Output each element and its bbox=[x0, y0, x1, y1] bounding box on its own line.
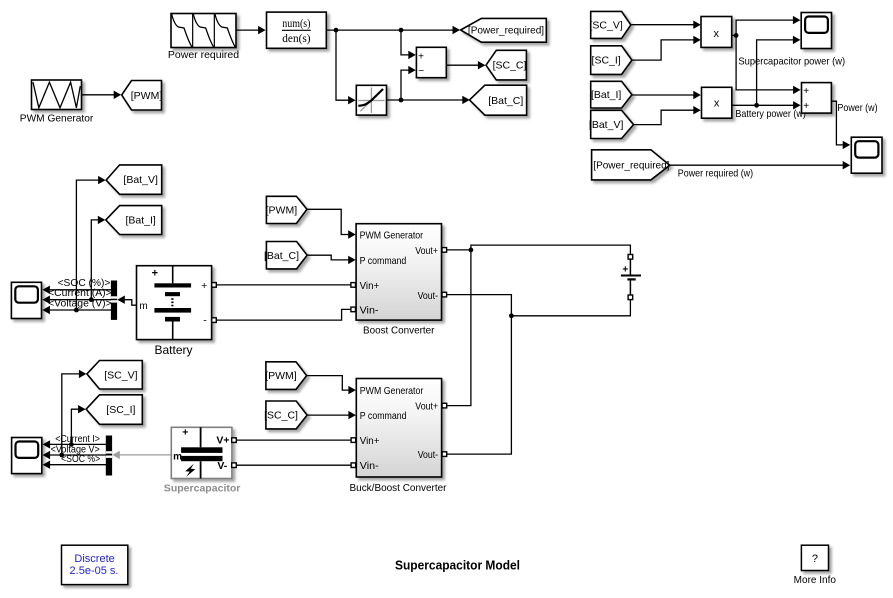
label Power required bbox=[168, 49, 239, 61]
svg-text:More Info: More Info bbox=[794, 575, 837, 586]
boost converter port Vin+ bbox=[351, 283, 356, 288]
buck converter port Vin+ bbox=[351, 438, 356, 443]
svg-text:[SC_C]: [SC_C] bbox=[264, 410, 298, 422]
transfer function block num(s)/den(s) bbox=[267, 12, 327, 48]
label signal Voltage V bbox=[48, 298, 112, 309]
supercap port V- bbox=[232, 463, 237, 468]
wire from Bat_C to Boost P command input bbox=[307, 255, 356, 264]
svg-text:[Power_required]: [Power_required] bbox=[468, 26, 544, 37]
wire PWM Generator to goto tag PWM bbox=[82, 91, 122, 99]
svg-text:2.5e-05 s.: 2.5e-05 s. bbox=[70, 565, 119, 577]
buck converter port Vin- bbox=[351, 463, 356, 468]
product block Product2 x bbox=[702, 87, 732, 118]
junction node A bbox=[334, 28, 339, 33]
label Supercapacitor power (w) bbox=[738, 56, 845, 68]
label Power required (w) bbox=[678, 168, 753, 180]
svg-text:[Bat_V]: [Bat_V] bbox=[589, 119, 624, 131]
junction node F bbox=[74, 308, 79, 313]
boost converter port Vout+ bbox=[442, 248, 447, 253]
from tag SC_I bbox=[591, 46, 632, 75]
svg-text:m: m bbox=[173, 452, 182, 463]
svg-text:Battery: Battery bbox=[154, 343, 192, 357]
svg-text:[Power_required]: [Power_required] bbox=[593, 161, 669, 172]
wire supercap m to bus selector (gray) bbox=[112, 451, 171, 459]
DC source port top bbox=[628, 255, 633, 260]
DC voltage source V1 bbox=[621, 259, 641, 295]
wire node C up to Sum minus input bbox=[401, 66, 416, 100]
wire SC_I to Product1 in2 bbox=[632, 36, 701, 60]
from tag Bat_C bbox=[264, 242, 307, 269]
junction node K bbox=[59, 453, 64, 458]
wire junction Current up to goto SC_I bbox=[71, 405, 85, 444]
svg-text:P command: P command bbox=[360, 410, 407, 422]
svg-text:Vin+: Vin+ bbox=[360, 280, 380, 292]
wire supercap bus out3 SOC to scope bbox=[43, 461, 107, 469]
goto tag Bat_V bbox=[106, 165, 162, 194]
svg-text:+: + bbox=[152, 267, 158, 279]
wire junction Current up to goto Bat_I bbox=[91, 216, 105, 300]
wire supercap bus out1 Current to scope bbox=[43, 440, 107, 448]
goto tag Bat_I bbox=[106, 206, 162, 235]
goto tag SC_I bbox=[86, 395, 142, 425]
svg-text:Vin-: Vin- bbox=[360, 460, 379, 472]
svg-text:+: + bbox=[622, 265, 628, 276]
svg-text:<Voltage (V)>: <Voltage (V)> bbox=[48, 298, 112, 309]
svg-text:[Bat_C]: [Bat_C] bbox=[488, 95, 523, 107]
bus selector battery (black bar) bbox=[111, 281, 117, 320]
wire battery plus to Boost Vin+ bbox=[216, 284, 351, 286]
svg-text:PWM Generator: PWM Generator bbox=[360, 385, 424, 397]
svg-text:-: - bbox=[203, 315, 207, 327]
wire Sum2 output to Scope2 in1 bbox=[831, 101, 850, 149]
product block Product1 x bbox=[701, 17, 732, 48]
label More Info bbox=[794, 575, 837, 586]
goto tag SC_V bbox=[87, 361, 142, 390]
from tag Bat_I bbox=[591, 81, 632, 108]
wire battery minus to Boost Vin- bbox=[216, 309, 351, 320]
from tag SC_V bbox=[590, 11, 631, 38]
source block PWM Generator (triangle wave) bbox=[32, 80, 82, 110]
svg-text:+: + bbox=[418, 51, 424, 62]
wire Saturation output to Goto Bat_C bbox=[387, 96, 470, 104]
wire Power required to Transfer Fcn bbox=[236, 26, 266, 34]
svg-text:Supercapacitor: Supercapacitor bbox=[164, 483, 241, 494]
svg-text:x: x bbox=[714, 98, 720, 110]
label signal SOC percent supercap bbox=[61, 454, 100, 465]
svg-text:[Bat_C]: [Bat_C] bbox=[264, 250, 299, 262]
svg-text:+: + bbox=[803, 86, 809, 97]
subsystem block Buck/Boost Converter bbox=[356, 379, 441, 478]
junction node C bbox=[399, 98, 404, 103]
wire Product1 output to Scope1 in1 and Sum2 in1 bbox=[732, 16, 801, 94]
wire bus selector out3 Voltage to scope bbox=[42, 306, 111, 314]
svg-text:V-: V- bbox=[217, 460, 227, 472]
junction node H bbox=[469, 248, 474, 253]
svg-text:[PWM]: [PWM] bbox=[266, 204, 298, 216]
svg-text:Vout+: Vout+ bbox=[415, 245, 438, 257]
subsystem block Boost Converter bbox=[356, 224, 441, 320]
junction node J bbox=[69, 442, 74, 447]
label Battery power (w) bbox=[735, 108, 806, 120]
supercapacitor block bbox=[171, 426, 232, 478]
svg-text:Buck/Boost Converter: Buck/Boost Converter bbox=[350, 483, 448, 494]
wire bus selector out1 SOC to scope bbox=[42, 286, 111, 294]
svg-text:<SOC %>: <SOC %> bbox=[61, 454, 100, 465]
wire junction Voltage up to goto SC_V bbox=[62, 370, 87, 455]
wire battery m to bus selector bbox=[117, 296, 136, 306]
from tag PWM (boost) bbox=[266, 196, 307, 223]
saturation dynamic block bbox=[356, 85, 386, 115]
goto tag Power_required bbox=[461, 18, 547, 42]
battery output port plus bbox=[212, 283, 217, 288]
scope block Supercap Scope bbox=[12, 438, 42, 474]
svg-text:Supercapacitor power (w): Supercapacitor power (w) bbox=[738, 56, 845, 68]
wire from PWM to Buck PWM Generator input bbox=[307, 376, 356, 395]
from tag Power_required bbox=[592, 150, 670, 180]
goto tag SC_C bbox=[486, 50, 527, 80]
svg-text:PWM Generator: PWM Generator bbox=[20, 113, 94, 125]
svg-text:+: + bbox=[803, 101, 809, 112]
scope block Scope1 bbox=[801, 13, 831, 49]
svg-text:Vout-: Vout- bbox=[418, 290, 439, 302]
label signal Current A bbox=[48, 288, 112, 299]
label Battery bbox=[154, 343, 192, 357]
from tag SC_C bbox=[264, 401, 307, 429]
sum block U1 plus-minus bbox=[416, 47, 446, 77]
svg-text:x: x bbox=[714, 28, 720, 40]
svg-text:[SC_C]: [SC_C] bbox=[493, 60, 527, 72]
label Buck/Boost Converter bbox=[350, 483, 448, 494]
scope block Scope2 bbox=[851, 137, 882, 173]
svg-text:Vout+: Vout+ bbox=[415, 401, 438, 413]
more info block question mark bbox=[801, 545, 828, 570]
svg-text:Power required: Power required bbox=[168, 49, 239, 61]
battery output port minus bbox=[212, 318, 217, 323]
junction node D bbox=[734, 33, 739, 38]
svg-text:+: + bbox=[182, 426, 188, 438]
svg-text:[SC_I]: [SC_I] bbox=[592, 55, 621, 67]
svg-text:Supercapacitor Model: Supercapacitor Model bbox=[395, 558, 520, 573]
wire node A down to Saturation input bbox=[336, 30, 356, 104]
svg-text:[PWM]: [PWM] bbox=[131, 90, 163, 102]
wire SC_V to Product1 in1 bbox=[631, 21, 701, 29]
label signal SOC percent bbox=[58, 278, 111, 289]
buck converter port Vout+ bbox=[442, 403, 447, 408]
wire junction Voltage up to goto Bat_V bbox=[76, 176, 105, 310]
junction node B bbox=[399, 28, 404, 33]
svg-text:Discrete: Discrete bbox=[74, 553, 114, 565]
svg-text:den(s): den(s) bbox=[282, 33, 310, 45]
svg-text:Boost Converter: Boost Converter bbox=[363, 325, 435, 336]
svg-text:[SC_V]: [SC_V] bbox=[104, 369, 137, 381]
wire from PWM to Boost PWM Generator input bbox=[307, 209, 356, 238]
svg-text:[Bat_I]: [Bat_I] bbox=[125, 215, 155, 227]
svg-text:Power required (w): Power required (w) bbox=[678, 168, 753, 180]
wire supercap bus out2 Voltage to scope bbox=[43, 451, 107, 459]
wire Product2 output to Sum2 in2 and Scope1 in2 bbox=[732, 36, 801, 110]
goto tag Bat_C bbox=[470, 85, 527, 115]
DC source port bottom bbox=[628, 295, 633, 300]
svg-text:PWM Generator: PWM Generator bbox=[360, 229, 424, 241]
wire Bat_V to Product2 in2 bbox=[634, 106, 701, 125]
wire from tag Power_required to Scope2 in2 bbox=[670, 161, 851, 169]
svg-text:+: + bbox=[201, 280, 207, 292]
svg-text:Vin-: Vin- bbox=[360, 304, 379, 316]
svg-text:m: m bbox=[139, 301, 147, 312]
svg-text:V+: V+ bbox=[216, 435, 229, 447]
wire Transfer Fcn output to Goto Power_required bbox=[326, 26, 460, 34]
svg-text:[Bat_V]: [Bat_V] bbox=[123, 174, 158, 186]
battery block bbox=[137, 266, 212, 340]
label Power (w) bbox=[837, 102, 877, 114]
wire Sum output to Goto SC_C bbox=[446, 61, 485, 69]
svg-text:−: − bbox=[418, 66, 424, 77]
svg-text:<Current (A)>: <Current (A)> bbox=[48, 288, 112, 299]
svg-text:?: ? bbox=[812, 553, 818, 565]
junction node E bbox=[754, 103, 759, 108]
wire supercap V+ to Buck Vin+ bbox=[236, 439, 351, 441]
label Boost Converter bbox=[363, 325, 435, 336]
label Supercapacitor bbox=[164, 483, 241, 494]
wire net Vout- (boost to DC source and buck) bbox=[447, 295, 631, 455]
svg-text:[SC_I]: [SC_I] bbox=[106, 404, 135, 416]
boost converter port Vin- bbox=[351, 307, 356, 312]
wire bus selector out2 Current to scope bbox=[42, 296, 111, 304]
buck converter port Vout- bbox=[442, 452, 447, 457]
svg-text:Vout-: Vout- bbox=[418, 449, 439, 461]
boost converter port Vout- bbox=[442, 292, 447, 297]
wire from SC_C to Buck P command input bbox=[307, 411, 356, 419]
bus selector supercap (black bar) bbox=[106, 436, 112, 475]
supercap port V+ bbox=[232, 438, 237, 443]
from tag Bat_V bbox=[589, 110, 634, 138]
svg-text:P command: P command bbox=[360, 255, 407, 267]
wire supercap V- to Buck Vin- bbox=[236, 464, 351, 466]
goto tag PWM bbox=[122, 81, 163, 111]
wire node B down to Sum plus input bbox=[401, 30, 416, 59]
from tag PWM (buck) bbox=[265, 362, 306, 390]
source block Power required (repeating sequence) bbox=[171, 14, 236, 48]
label PWM Generator bbox=[20, 113, 94, 125]
wire Bat_I to Product2 in1 bbox=[632, 91, 701, 99]
label signal Voltage V bbox=[51, 445, 100, 456]
scope block Battery Scope bbox=[11, 282, 41, 318]
discrete solver block bbox=[62, 545, 128, 584]
svg-text:Battery power (w): Battery power (w) bbox=[735, 108, 806, 120]
svg-text:num(s): num(s) bbox=[282, 18, 310, 30]
wire net Vout+ (boost to DC source and buck) bbox=[447, 245, 631, 406]
junction node G bbox=[89, 297, 94, 302]
svg-text:Power (w): Power (w) bbox=[837, 102, 877, 114]
title Supercapacitor Model bbox=[395, 558, 520, 573]
svg-text:[Bat_I]: [Bat_I] bbox=[591, 89, 621, 101]
label signal Current I bbox=[55, 434, 100, 445]
junction node I bbox=[509, 313, 514, 318]
sum block Sum2 plus-plus bbox=[802, 83, 832, 114]
svg-text:[PWM]: [PWM] bbox=[265, 370, 297, 382]
svg-text:[SC_V]: [SC_V] bbox=[590, 19, 623, 31]
svg-text:Vin+: Vin+ bbox=[360, 435, 380, 447]
